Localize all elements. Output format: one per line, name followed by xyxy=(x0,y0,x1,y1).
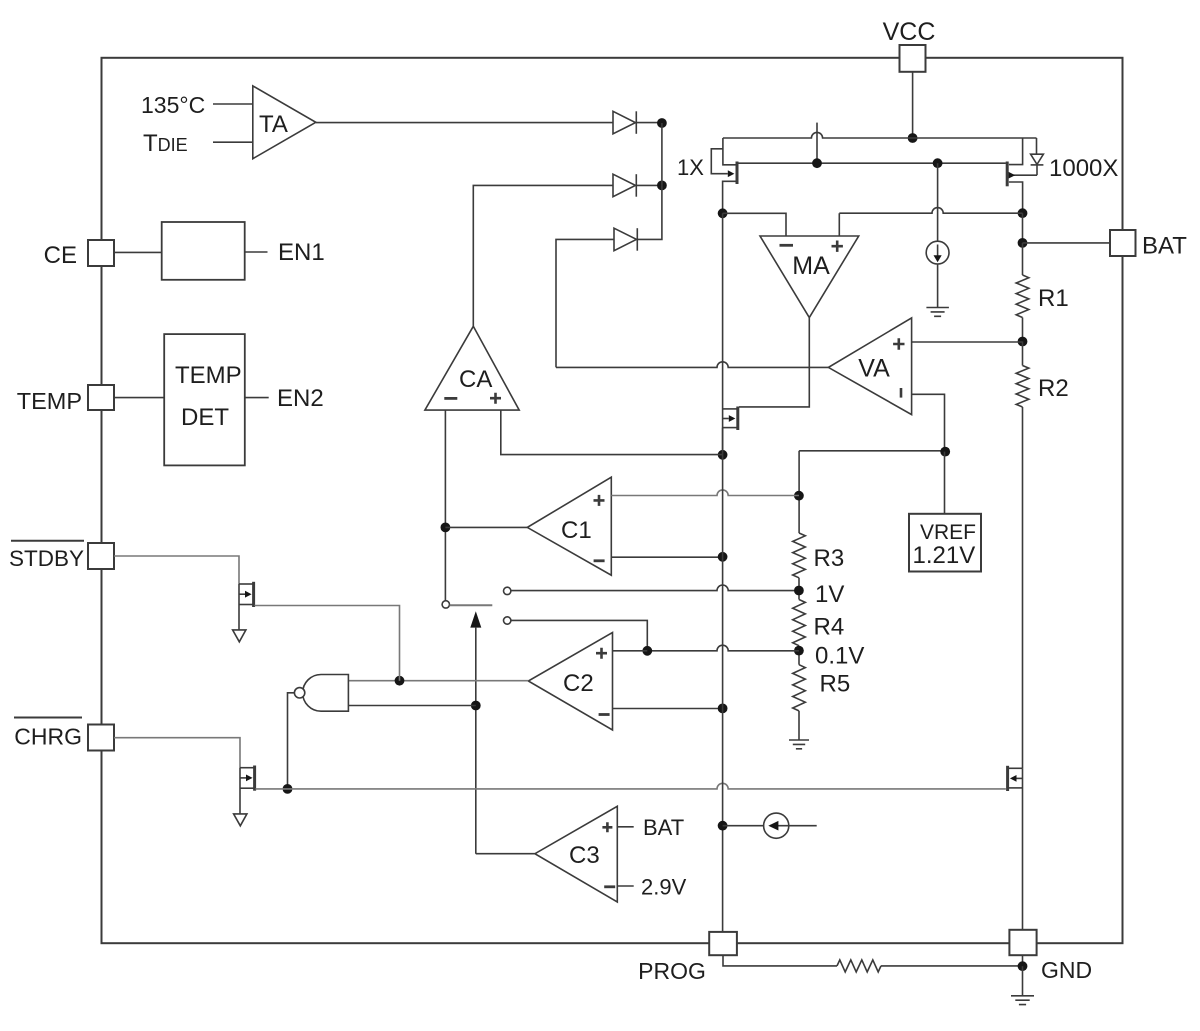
svg-text:1X: 1X xyxy=(677,155,704,180)
svg-text:R1: R1 xyxy=(1038,285,1069,312)
junction dot CS2 on rail xyxy=(718,821,728,831)
block EN1 xyxy=(162,222,245,280)
op-amp MA xyxy=(760,236,859,318)
wire STDBY to M4 drain xyxy=(114,556,239,584)
NAND gate (mirrored) xyxy=(303,675,349,712)
junction dot CA plus node on rail xyxy=(718,450,728,460)
wire CA output up to diode D2 xyxy=(473,185,613,326)
transistor 1000X (power PMOS) xyxy=(1007,138,1037,213)
resistor R4 xyxy=(793,600,806,646)
wire CA plus input xyxy=(501,410,723,455)
wire C3 plus stub xyxy=(617,826,633,828)
pin TEMP xyxy=(88,385,114,410)
op-amp CA xyxy=(425,326,519,410)
wire 0.1V tap line (hop at x=722.6) xyxy=(511,620,647,650)
pin CHRG xyxy=(88,725,114,751)
block VREF 1.21V xyxy=(909,514,981,572)
svg-text:R3: R3 xyxy=(814,545,845,572)
wire C1 plus input to VREF branch (hop at x=722.6) xyxy=(611,490,799,496)
svg-text:CE: CE xyxy=(44,242,77,269)
svg-text:CHRG: CHRG xyxy=(14,724,82,750)
svg-text:C1: C1 xyxy=(561,517,592,544)
diode D1 xyxy=(613,111,636,134)
wire TA input 135C xyxy=(213,103,253,105)
wire MA minus input from 1X drain xyxy=(723,213,786,236)
junction dot 1X drain node xyxy=(718,208,728,218)
switch contact circle B xyxy=(442,601,449,608)
resistor R3 xyxy=(793,533,806,578)
junction dot C2 minus on rail xyxy=(718,704,728,714)
wire gate rail between 1X and 1000X xyxy=(738,162,1006,164)
wire CS1 to ground xyxy=(937,264,939,308)
junction dot gate rail / D1 branch xyxy=(812,158,822,168)
wire M4 gate line to NAND node xyxy=(255,606,400,681)
wire VREF node down to R3 top xyxy=(798,451,800,533)
wire R5 to ground xyxy=(798,711,800,740)
transistor M5 (CHRG open-drain) xyxy=(240,766,255,791)
svg-text:1.21V: 1.21V xyxy=(913,542,976,569)
wire GND node to ground xyxy=(1022,966,1024,996)
switch contact circle A (1V) xyxy=(504,587,511,594)
wire TEMP to TEMP DET box xyxy=(114,397,164,399)
wire D3 cathode up to node D2 xyxy=(637,185,662,239)
junction dot R1/R2 divider node xyxy=(1018,337,1028,347)
wire TA output to diode D1 xyxy=(316,122,613,124)
wire node D1 to node D2 xyxy=(661,123,663,185)
current source CS2 xyxy=(723,825,764,827)
wire R3 to R4 xyxy=(798,578,800,600)
wire R4 to R5 xyxy=(798,646,800,665)
svg-text:C2: C2 xyxy=(563,670,594,697)
resistor R5 xyxy=(793,665,806,711)
wire C1 output to CA minus line xyxy=(445,526,527,528)
junction dot VCC on top rail xyxy=(908,133,918,143)
svg-text:EN1: EN1 xyxy=(278,239,325,266)
ground under R5 xyxy=(789,740,809,749)
wire TA input TDIE xyxy=(213,141,253,143)
wire C2 plus input xyxy=(613,650,648,652)
svg-text:VA: VA xyxy=(858,355,890,383)
transistor 1X (sense PMOS) xyxy=(711,138,737,213)
wire RPROG to GND node xyxy=(881,965,1023,967)
wire BAT node down to R1 xyxy=(1022,243,1024,275)
wire CHRG to M5 drain xyxy=(114,738,240,768)
svg-text:TEMP: TEMP xyxy=(17,388,82,414)
wire gate rail down to current source CS1 xyxy=(937,163,939,241)
junction dot 0.1V node xyxy=(794,646,804,656)
switch select arrow from C3 xyxy=(470,611,481,627)
block TEMP DET xyxy=(164,334,245,465)
junction dot BAT node xyxy=(1018,238,1028,248)
wire C3 minus stub xyxy=(617,885,633,887)
junction dot node D2 xyxy=(657,181,667,191)
svg-text:R5: R5 xyxy=(820,671,851,698)
current source CS1 xyxy=(926,241,949,264)
svg-text:0.1V: 0.1V xyxy=(815,643,864,670)
wire MA output down to M3 gate xyxy=(739,318,809,407)
junction dot 1000X drain node xyxy=(1018,208,1028,218)
comparator C2 xyxy=(528,633,612,731)
overline STDBY xyxy=(11,540,84,542)
pin GND xyxy=(1009,930,1036,955)
svg-text:C3: C3 xyxy=(569,842,600,869)
svg-text:1000X: 1000X xyxy=(1049,155,1118,182)
junction dot C1 output on CA minus line xyxy=(441,523,451,533)
op-amp TA xyxy=(253,86,316,159)
svg-text:GND: GND xyxy=(1041,957,1092,983)
wire GND pin down xyxy=(1022,955,1024,966)
wire M5/M6 gate line long (hop at x=722.6) xyxy=(256,783,1006,789)
wire D1 cathode to node xyxy=(636,122,662,124)
svg-text:EN2: EN2 xyxy=(277,385,324,412)
open ground arrow under M5 xyxy=(234,814,247,826)
wire C3 output vertical xyxy=(475,628,477,854)
wire CA minus input down to switch xyxy=(444,410,446,601)
wire VA output to D3 (hop at x=722.6) xyxy=(556,239,828,367)
svg-text:TEMP: TEMP xyxy=(175,362,242,389)
resistor R2 xyxy=(1016,366,1029,408)
wire divider node down to R2 xyxy=(1022,342,1024,366)
diode D2 xyxy=(613,174,636,197)
switch contact circle C (0.1V) xyxy=(504,617,511,624)
junction dot C1 plus branch xyxy=(794,491,804,501)
junction dot gate rail / current source branch xyxy=(933,158,943,168)
wire CE to EN1 box xyxy=(114,251,162,253)
svg-text:DET: DET xyxy=(181,404,229,431)
svg-text:135°C: 135°C xyxy=(141,92,205,118)
wire VREF node horizontal xyxy=(799,450,945,452)
wire top rail VCC (hop at x=817) xyxy=(723,132,1037,138)
wire M5 source to arrow ground xyxy=(239,768,241,814)
wire VCC down to top rail xyxy=(912,72,914,138)
wire PROG below to program resistor xyxy=(723,955,837,966)
wire MA plus input to BAT rail (hop at x=937.6) xyxy=(839,208,1022,236)
wire R2 down to M6 drain xyxy=(1022,407,1024,768)
pin BAT xyxy=(1110,230,1136,256)
wire BAT node to BAT pin xyxy=(1023,242,1111,244)
wire node D1 down to gate rail xyxy=(816,123,818,164)
svg-text:R2: R2 xyxy=(1038,375,1069,402)
pin PROG xyxy=(709,932,737,955)
ground under CS1 xyxy=(926,308,949,317)
IC boundary xyxy=(102,58,1123,943)
wire VREF node to VREF block xyxy=(944,452,946,514)
wire R1 to divider node xyxy=(1022,318,1024,342)
wire M6 source down to GND pin xyxy=(1022,768,1024,930)
wire C2 minus input to rail xyxy=(613,708,723,710)
svg-text:BAT: BAT xyxy=(643,815,684,840)
wire 1X drain node down to M3 xyxy=(722,213,724,454)
overline CHRG xyxy=(14,717,82,719)
wire NAND input B xyxy=(348,705,475,707)
transistor M4 (STDBY open-drain) xyxy=(239,582,254,607)
junction dot NAND input A / M4 gate branch xyxy=(395,676,405,686)
junction dot NAND input B xyxy=(471,701,481,711)
ground under GND xyxy=(1011,996,1034,1005)
open ground arrow under M4 xyxy=(233,630,246,642)
svg-text:BAT: BAT xyxy=(1142,233,1187,260)
wire CS2 stub right xyxy=(789,825,817,827)
svg-text:STDBY: STDBY xyxy=(9,546,84,571)
svg-text:VCC: VCC xyxy=(883,18,936,46)
switch wiper arm xyxy=(450,604,493,606)
wire 1V tap line (hop at x=722.6) xyxy=(511,585,799,591)
transistor M3 xyxy=(723,407,738,431)
wire EN2 stub xyxy=(245,397,269,399)
svg-text:PROG: PROG xyxy=(638,958,706,984)
body diode of 1000X xyxy=(1031,138,1044,175)
wire main sense rail xyxy=(722,428,724,932)
pin CE xyxy=(88,240,114,266)
wire EN1 stub xyxy=(245,251,268,253)
svg-text:VREF: VREF xyxy=(920,521,976,544)
diode D3 xyxy=(614,228,637,251)
wire VA plus input to divider node xyxy=(912,341,1023,343)
svg-text:R4: R4 xyxy=(814,614,845,641)
junction dot VREF node xyxy=(940,447,950,457)
svg-text:2.9V: 2.9V xyxy=(641,875,687,900)
svg-text:TA: TA xyxy=(259,111,288,138)
resistor RPROG xyxy=(837,960,881,972)
junction dot C2 plus branch xyxy=(642,646,652,656)
svg-text:CA: CA xyxy=(459,366,492,393)
op-amp VA xyxy=(828,318,911,415)
junction dot GND node xyxy=(1018,961,1028,971)
junction dot 1V node xyxy=(794,586,804,596)
wire 1000X drain down to BAT node xyxy=(1022,213,1024,243)
svg-text:1V: 1V xyxy=(815,581,844,608)
wire M4 source to arrow ground xyxy=(238,584,240,630)
resistor R1 xyxy=(1016,275,1029,318)
svg-text:TDIE: TDIE xyxy=(143,130,188,157)
NAND output bubble xyxy=(294,688,304,698)
comparator C3 xyxy=(535,806,617,902)
wire C1 minus input to rail xyxy=(611,556,722,558)
pin STDBY xyxy=(88,543,114,569)
wire C2 output to NAND input A xyxy=(348,680,528,682)
wire NAND output down to M5 gate line xyxy=(288,693,295,789)
svg-text:MA: MA xyxy=(792,252,830,280)
junction dot C1 minus on rail xyxy=(718,552,728,562)
junction dot NAND output on gate line xyxy=(283,784,293,794)
comparator C1 xyxy=(527,477,611,575)
junction dot node D1 xyxy=(657,118,667,128)
transistor M6 (GND switch) xyxy=(1008,766,1023,791)
wire D2 cathode to node xyxy=(636,184,662,186)
wire VA minus input to VREF node xyxy=(912,394,945,451)
wire C3 output to switch arrow line xyxy=(476,853,535,855)
